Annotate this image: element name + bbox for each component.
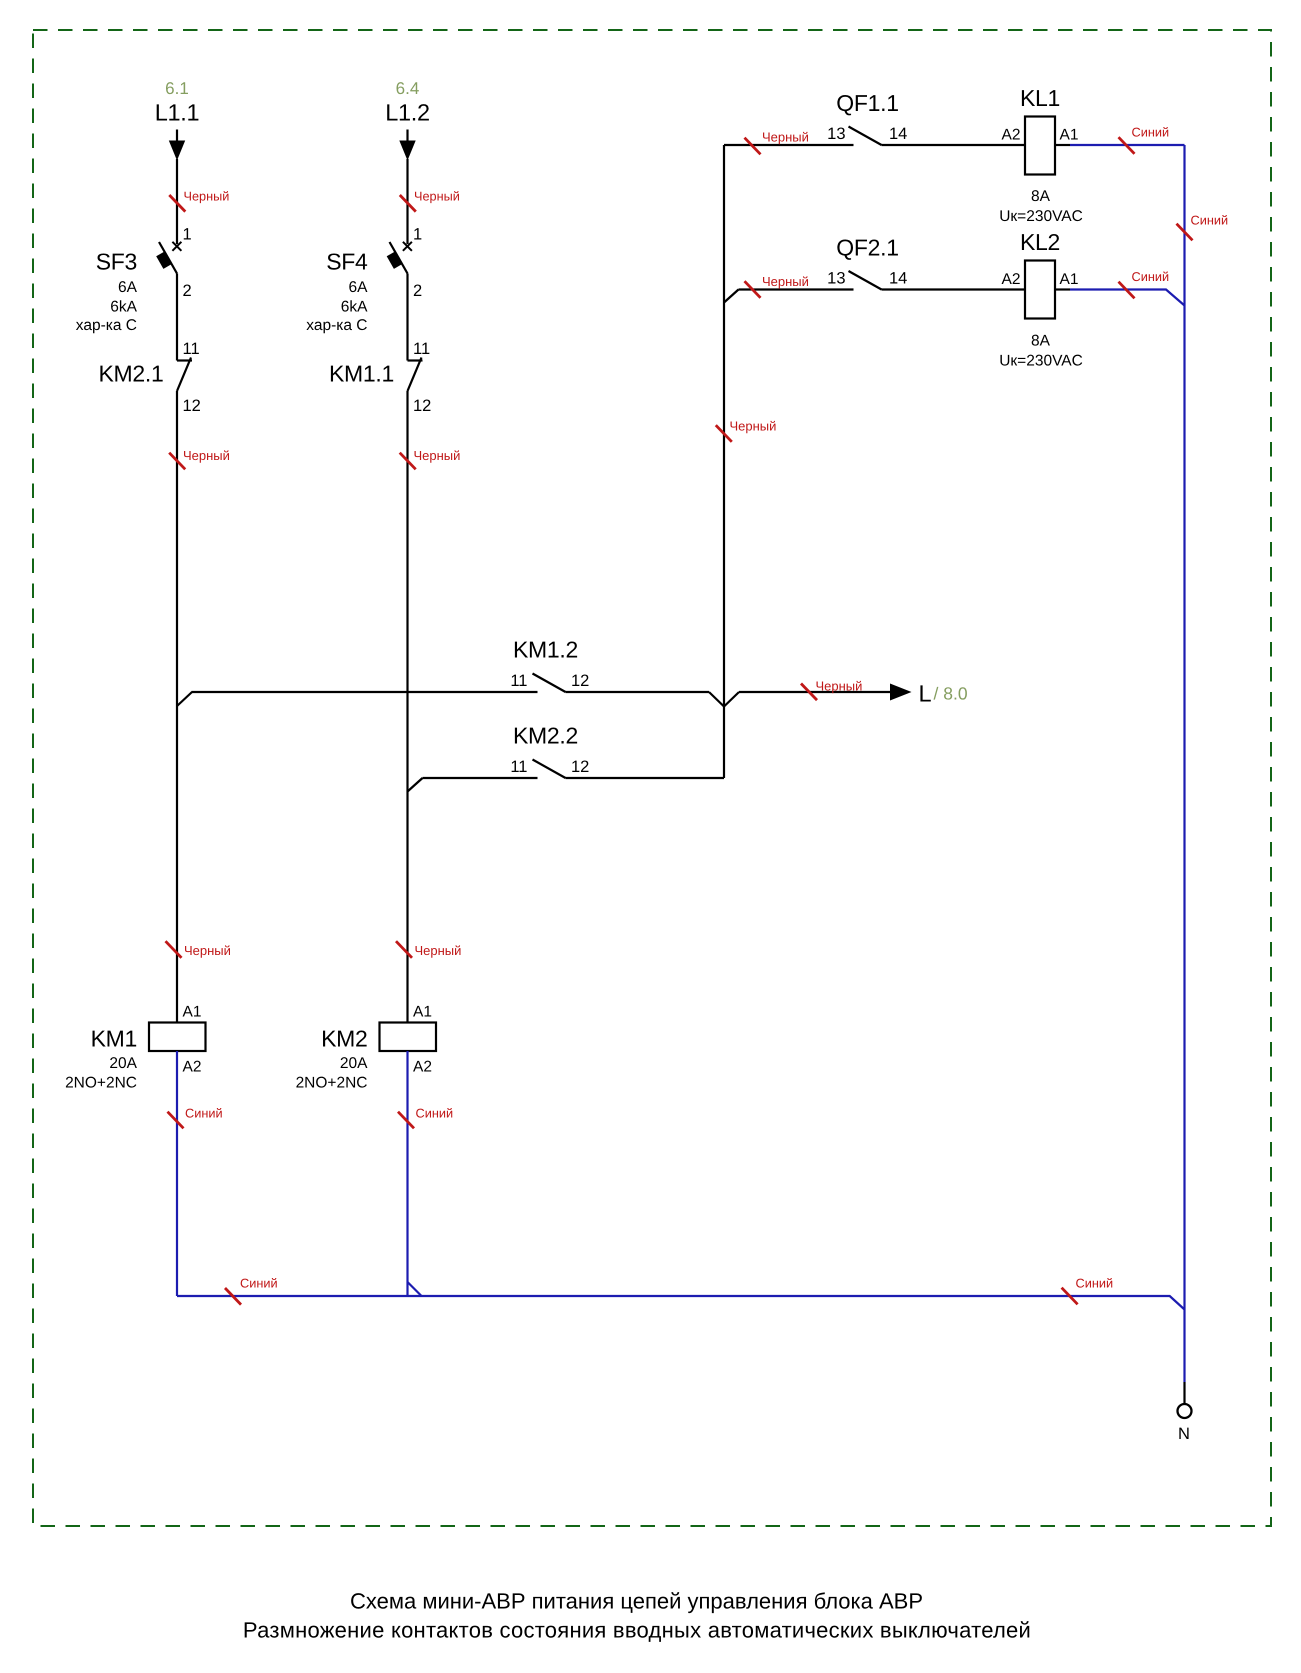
svg-text:Синий: Синий: [1076, 1276, 1114, 1291]
svg-text:11: 11: [183, 340, 200, 358]
svg-text:Синий: Синий: [1132, 269, 1170, 284]
svg-text:Размножение контактов состояни: Размножение контактов состояния вводных …: [243, 1618, 1031, 1643]
svg-text:Черный: Черный: [414, 448, 461, 463]
svg-text:A1: A1: [413, 1004, 432, 1021]
wire tap junction to contact row (x=177): [177, 692, 192, 706]
svg-text:8A: 8A: [1031, 188, 1051, 205]
NC contact KM2.1: [177, 359, 192, 361]
NO contact KM1.2: [533, 674, 566, 693]
wire color label Черный (QF1.1 row): [745, 138, 761, 155]
svg-text:Uк=230VAC: Uк=230VAC: [999, 353, 1083, 370]
NO contact KM2.2: [533, 760, 566, 779]
svg-text:Черный: Черный: [414, 190, 460, 204]
svg-text:1: 1: [183, 226, 192, 244]
svg-text:6kA: 6kA: [110, 299, 137, 316]
svg-text:KM2: KM2: [321, 1026, 367, 1052]
wire right riser N (blue): [1183, 145, 1185, 1382]
svg-text:8A: 8A: [1031, 333, 1051, 350]
svg-text:N: N: [1178, 1425, 1190, 1443]
wire color label Синий (below KM2): [398, 1112, 414, 1129]
svg-text:A1: A1: [183, 1004, 202, 1021]
wire KM1.2 row from branch L1.1: [192, 691, 538, 693]
wire KL2 A1 stub: [1055, 288, 1070, 290]
svg-text:12: 12: [183, 397, 201, 415]
wire L1.2 incoming with down arrow: [406, 130, 408, 142]
svg-text:12: 12: [571, 672, 589, 690]
wire color label Черный (mid, x=177): [169, 453, 185, 470]
svg-text:Черный: Черный: [762, 274, 809, 289]
svg-text:Схема мини-АВР питания цепей у: Схема мини-АВР питания цепей управления …: [350, 1589, 923, 1614]
wire color label Синий (below KM1): [168, 1112, 184, 1129]
wire QF2.1 branch diagonal: [724, 290, 739, 303]
svg-text:Черный: Черный: [730, 419, 777, 434]
NC contact KM1.1: [408, 359, 423, 361]
svg-text:1: 1: [413, 226, 422, 244]
svg-text:20A: 20A: [340, 1055, 368, 1072]
relay coil KL2: [1025, 261, 1055, 319]
wire L1.1 incoming with down arrow: [176, 130, 178, 142]
svg-text:Черный: Черный: [415, 943, 462, 958]
wire bottom bus N (blue): [177, 1296, 1185, 1310]
breaker SF4: [403, 242, 412, 251]
wire color label Черный (middle riser): [716, 425, 732, 442]
net L outgoing arrow: [890, 684, 912, 701]
wire QF1.1 pin14 to KL1 A2: [882, 144, 1026, 146]
wire KM2 A2 down (blue): [406, 1051, 408, 1296]
wire color label Синий (bus right): [1062, 1288, 1078, 1305]
svg-text:KM1: KM1: [91, 1026, 137, 1052]
svg-text:A2: A2: [413, 1059, 432, 1076]
wire QF1.1 row left: [724, 144, 854, 146]
svg-text:Синий: Синий: [185, 1106, 223, 1121]
wire KL1 A1 stub: [1055, 144, 1070, 146]
svg-text:2: 2: [183, 282, 192, 300]
junction stub L1.2 branch to bus: [408, 1282, 422, 1296]
wire color label Синий (KL1 out): [1119, 137, 1135, 154]
wire color label Синий (right riser): [1177, 224, 1193, 241]
svg-text:KL1: KL1: [1020, 85, 1060, 111]
svg-text:L1.2: L1.2: [385, 100, 430, 126]
svg-text:QF2.1: QF2.1: [836, 235, 898, 261]
wire KM1 A2 down (blue): [176, 1051, 178, 1296]
svg-text:Черный: Черный: [184, 943, 231, 958]
relay coil KL1: [1025, 117, 1055, 175]
svg-text:Черный: Черный: [816, 679, 863, 694]
NO contact QF1.1: [849, 127, 882, 146]
wire color label Черный (L1.2): [400, 195, 416, 212]
svg-text:KM2.1: KM2.1: [99, 361, 164, 387]
wire SF3 pin2 down: [176, 274, 178, 361]
wire color label Черный (L1.1): [169, 195, 185, 212]
svg-text:L: L: [919, 681, 932, 707]
svg-text:KL2: KL2: [1020, 229, 1060, 255]
wire KM2.2 row from branch L1.2: [423, 777, 538, 779]
wire to L arrow: [739, 691, 890, 693]
wire SF4 pin2 down: [406, 274, 408, 361]
terminal N: [1178, 1404, 1192, 1418]
wire KM1.2 pin12 to middle vertical: [566, 691, 710, 693]
svg-text:6A: 6A: [349, 279, 369, 296]
svg-text:2NO+2NC: 2NO+2NC: [65, 1075, 137, 1092]
svg-text:6A: 6A: [118, 279, 138, 296]
svg-text:A2: A2: [1002, 271, 1021, 288]
svg-text:L1.1: L1.1: [155, 100, 200, 126]
svg-text:14: 14: [889, 125, 907, 143]
wire tap junction to contact row (x=407.5): [408, 778, 423, 792]
svg-text:20A: 20A: [109, 1055, 137, 1072]
svg-text:KM1.1: KM1.1: [329, 361, 394, 387]
svg-text:A2: A2: [183, 1059, 202, 1076]
svg-text:2: 2: [413, 282, 422, 300]
svg-text:A1: A1: [1060, 127, 1079, 144]
wire to terminal N: [1183, 1382, 1185, 1404]
wire color label Синий (KL2 out): [1119, 282, 1135, 299]
svg-text:6.4: 6.4: [396, 79, 420, 98]
wire color label Черный (mid, x=407.5): [400, 453, 416, 470]
wire QF2.1 pin14 to KL2 A2: [882, 288, 1026, 290]
svg-text:11: 11: [510, 672, 527, 690]
wire color label Черный (above KM2): [396, 941, 412, 958]
svg-text:A1: A1: [1060, 271, 1079, 288]
wire KL2 A1 to right riser (blue): [1070, 290, 1185, 306]
svg-text:Черный: Черный: [184, 190, 230, 204]
svg-text:12: 12: [413, 397, 431, 415]
wire QF2.1 row left: [739, 288, 854, 290]
wire middle vertical riser: [723, 145, 725, 778]
svg-text:SF4: SF4: [326, 249, 368, 275]
svg-text:Синий: Синий: [240, 1276, 278, 1291]
svg-text:12: 12: [571, 758, 589, 776]
svg-text:13: 13: [827, 270, 845, 288]
svg-text:14: 14: [889, 270, 907, 288]
svg-text:A2: A2: [1002, 127, 1021, 144]
wire KL1 A1 to right riser (blue): [1070, 144, 1185, 146]
svg-text:13: 13: [827, 125, 845, 143]
svg-text:/ 8.0: / 8.0: [934, 684, 968, 704]
svg-text:QF1.1: QF1.1: [836, 90, 898, 116]
svg-text:Черный: Черный: [183, 448, 230, 463]
svg-text:KM1.2: KM1.2: [513, 637, 578, 663]
svg-text:SF3: SF3: [96, 249, 137, 275]
svg-text:11: 11: [413, 340, 430, 358]
contactor coil KM1: [149, 1023, 206, 1052]
svg-text:2NO+2NC: 2NO+2NC: [296, 1075, 368, 1092]
NO contact QF2.1: [849, 271, 882, 290]
svg-text:Черный: Черный: [762, 130, 809, 145]
breaker SF3: [172, 242, 181, 251]
svg-text:хар-ка C: хар-ка C: [306, 317, 367, 334]
wire KM1.1 pin12 down to coil KM2: [406, 391, 408, 1023]
svg-text:11: 11: [510, 758, 527, 776]
svg-text:Синий: Синий: [416, 1106, 454, 1121]
wire color label Черный (L wire): [801, 684, 817, 701]
wire color label Черный (above KM1): [166, 941, 182, 958]
wire KM2.2 pin12 to middle vertical: [566, 777, 725, 779]
svg-text:Синий: Синий: [1191, 213, 1229, 228]
svg-text:Синий: Синий: [1132, 125, 1170, 140]
svg-text:6kA: 6kA: [341, 299, 368, 316]
svg-text:Uк=230VAC: Uк=230VAC: [999, 208, 1083, 225]
svg-text:6.1: 6.1: [165, 79, 189, 98]
wire color label Синий (bus left): [225, 1288, 241, 1305]
contactor coil KM2: [380, 1023, 437, 1052]
wire color label Черный (QF2.1 row): [745, 281, 761, 298]
junction V middle vertical / L line: [724, 692, 739, 707]
svg-text:KM2.2: KM2.2: [513, 723, 578, 749]
svg-text:хар-ка C: хар-ка C: [76, 317, 137, 334]
wire KM2.1 pin12 down to coil KM1: [176, 391, 178, 1023]
